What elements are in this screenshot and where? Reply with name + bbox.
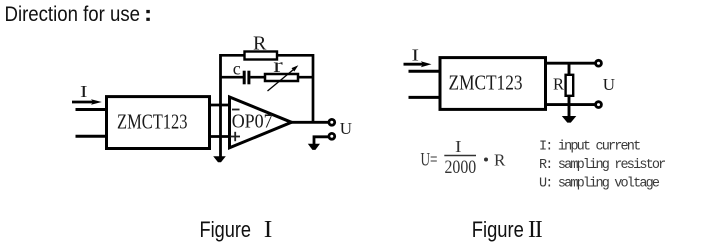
ground symbol (figure I, output side) xyxy=(308,144,320,150)
svg-text:I: I xyxy=(455,137,462,156)
op-amp non-inverting input plus sign xyxy=(231,132,241,141)
output terminal upper (figure II) xyxy=(596,60,602,66)
input current arrow (figure II) xyxy=(404,61,432,67)
variable resistor r body xyxy=(265,74,298,81)
ground symbol (figure II) xyxy=(562,116,577,123)
variable resistor arrow xyxy=(268,65,299,91)
wire: box to non-inverting input stub xyxy=(208,135,230,138)
wire: upper input lead (figure II) xyxy=(409,70,442,73)
svg-text:I: input current: I: input current xyxy=(539,140,640,155)
wire: feedback right rail down to output xyxy=(312,54,315,122)
wire: vertical rail (feedback node down to ground) xyxy=(219,54,222,157)
svg-text:R: sampling resistor: R: sampling resistor xyxy=(539,158,665,173)
formula fraction bar xyxy=(444,155,476,157)
op-amp U1 triangle (OP07) xyxy=(230,97,292,148)
wire: lower input lead (figure I) xyxy=(76,135,108,138)
wire: lower terminal to ground (figure I) xyxy=(314,137,329,144)
svg-text:R: R xyxy=(253,33,267,55)
ground symbol (figure I, below op-amp input rail) xyxy=(213,156,226,162)
wire: feedback top branch (R branch) xyxy=(220,54,315,57)
svg-text:U: U xyxy=(340,119,352,138)
wire: op-amp output xyxy=(291,121,330,124)
svg-text:II: II xyxy=(528,217,543,243)
resistor R (feedback, figure I) xyxy=(245,52,278,60)
svg-text:U: sampling voltage: U: sampling voltage xyxy=(539,177,660,192)
wire: lower input lead (figure II) xyxy=(409,96,442,99)
svg-text:2000: 2000 xyxy=(445,157,477,178)
svg-text:ZMCT123: ZMCT123 xyxy=(117,110,188,134)
svg-text:r: r xyxy=(273,55,283,77)
input current arrow (figure I) xyxy=(72,99,102,104)
caption Figure I xyxy=(200,217,273,243)
wire: sampling resistor branch vertical xyxy=(568,63,571,116)
output terminal lower (figure I) xyxy=(329,133,335,139)
formula U = I/2000 * R xyxy=(421,137,507,178)
wire: feedback second branch right segment xyxy=(250,76,314,79)
svg-text:R: R xyxy=(553,75,564,94)
svg-text:ZMCT123: ZMCT123 xyxy=(449,70,523,94)
wire: upper input lead (figure I) xyxy=(76,108,108,111)
formula dot operator xyxy=(484,158,488,162)
output terminal upper (figure I) xyxy=(329,119,335,125)
svg-text:I: I xyxy=(80,82,88,101)
svg-text:I: I xyxy=(412,46,420,65)
wire: feedback second branch left segment (to capacitor) xyxy=(220,76,244,79)
svg-text:Figure: Figure xyxy=(472,217,524,242)
capacitor C plates xyxy=(244,71,249,85)
sampling resistor R body (figure II) xyxy=(566,75,574,96)
svg-text:U=: U= xyxy=(421,151,438,171)
caption Figure II xyxy=(472,217,543,243)
svg-text:R: R xyxy=(494,150,506,169)
ZMCT123 transformer box (figure II) xyxy=(440,58,546,110)
ZMCT123 transformer box (figure I) xyxy=(107,97,210,149)
svg-text:I: I xyxy=(264,217,273,243)
svg-text:OP07: OP07 xyxy=(232,111,273,133)
op-amp inverting input minus sign xyxy=(232,109,240,111)
svg-text:Direction for use: Direction for use xyxy=(5,2,141,26)
output terminal lower (figure II) xyxy=(596,102,602,108)
svg-text:c: c xyxy=(233,59,241,79)
wire: box to inverting input stub xyxy=(208,104,229,107)
wire: upper output lead to terminal (figure II) xyxy=(545,62,596,65)
svg-text:Figure: Figure xyxy=(200,217,252,242)
wire: lower output lead to terminal (figure II) xyxy=(545,103,596,106)
svg-text:U: U xyxy=(603,75,615,94)
